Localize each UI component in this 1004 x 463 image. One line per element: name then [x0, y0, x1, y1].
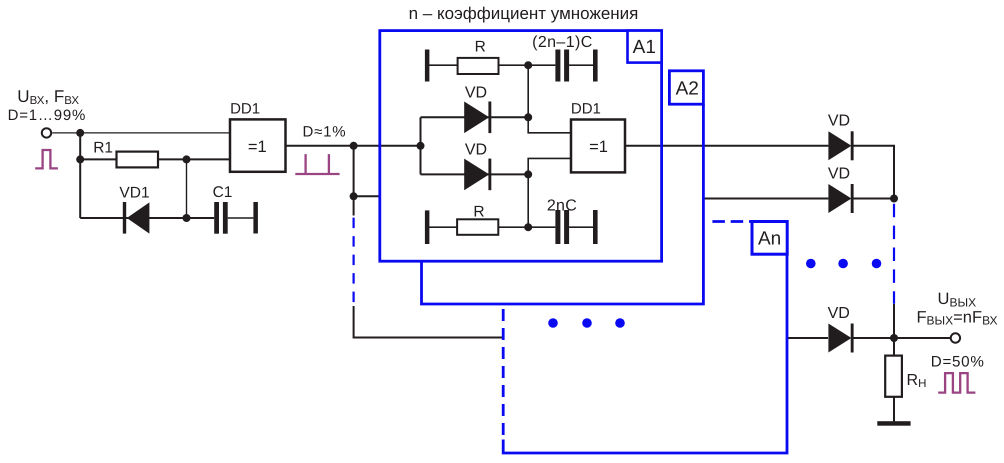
svg-text:A1: A1 — [633, 37, 656, 58]
svg-text:D=50%: D=50% — [931, 353, 985, 370]
svg-text:D≈1%: D≈1% — [303, 123, 347, 140]
svg-text:D=1…99%: D=1…99% — [8, 107, 87, 124]
svg-text:UВХ, FВХ: UВХ, FВХ — [17, 87, 79, 107]
svg-text:DD1: DD1 — [230, 100, 260, 117]
svg-text:DD1: DD1 — [571, 100, 601, 117]
svg-text:=1: =1 — [248, 138, 267, 156]
svg-text:An: An — [758, 229, 781, 250]
svg-text:C1: C1 — [213, 184, 233, 201]
svg-text:VD: VD — [828, 112, 850, 129]
svg-text:R: R — [475, 39, 486, 56]
svg-text:2nC: 2nC — [547, 197, 577, 214]
svg-text:UВЫХ: UВЫХ — [938, 290, 977, 309]
svg-text:RН: RН — [907, 372, 927, 390]
svg-text:R: R — [473, 203, 484, 220]
svg-text:(2n–1)C: (2n–1)C — [532, 34, 593, 51]
svg-text:VD1: VD1 — [119, 185, 149, 202]
svg-text:=1: =1 — [589, 138, 608, 156]
svg-text:A2: A2 — [676, 79, 699, 100]
svg-text:R1: R1 — [93, 139, 113, 156]
svg-text:FВЫХ=nFВХ: FВЫХ=nFВХ — [916, 309, 997, 328]
svg-text:VD: VD — [465, 142, 487, 159]
svg-text:VD: VD — [465, 85, 487, 102]
svg-text:VD: VD — [828, 166, 850, 183]
svg-text:VD: VD — [828, 305, 850, 322]
svg-text:n – коэффициент умножения: n – коэффициент умножения — [409, 4, 639, 23]
